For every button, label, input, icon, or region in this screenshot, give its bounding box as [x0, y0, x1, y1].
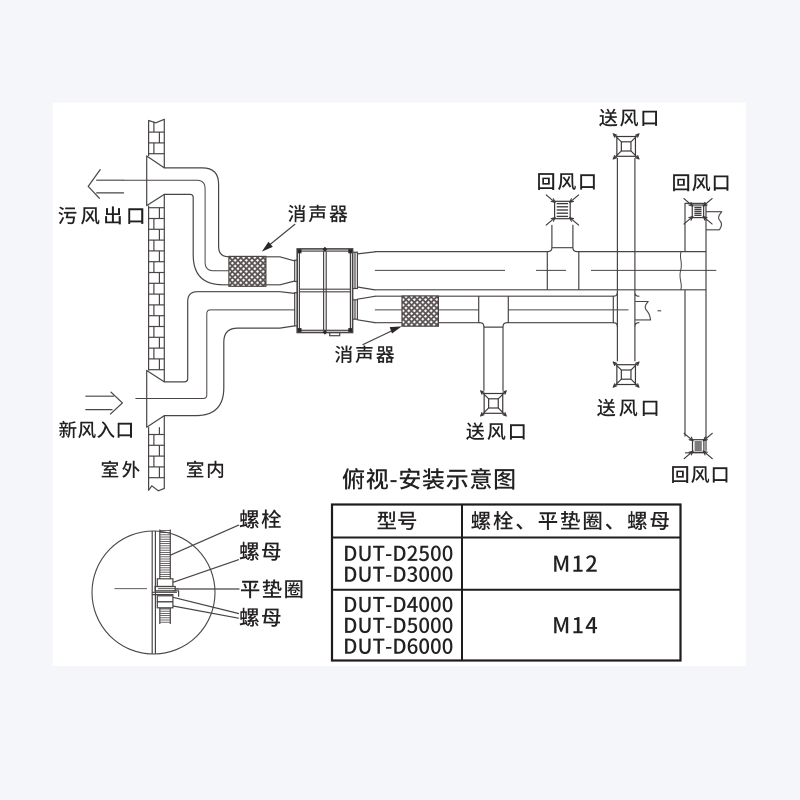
return grille R1: [546, 195, 578, 225]
label 室内: [187, 461, 223, 479]
label 消声器 M2 with leader: [335, 326, 402, 363]
fresh air flow arrow: [86, 392, 123, 414]
title 俯视-安装示意图: [343, 468, 515, 490]
label 新风入口: [59, 421, 132, 438]
label 室外: [102, 461, 140, 479]
label 污风出口: [58, 206, 143, 224]
return grille R2 (top right): [684, 199, 712, 224]
muffler M2: [402, 296, 438, 326]
fresh air duct: [136, 292, 298, 416]
supply grille S3 (left): [481, 391, 507, 416]
label 送风口 top: [599, 109, 657, 127]
exhaust duct: [124, 168, 298, 285]
table cell DUT-D2500 DUT-D3000: [345, 546, 452, 583]
return air main duct: [375, 248, 716, 290]
label 平垫圈 with leader: [175, 580, 302, 599]
label 回风口 R2: [673, 174, 728, 191]
table cell DUT-D4000 DUT-D5000 DUT-D6000: [345, 597, 452, 654]
muffler M1: [229, 256, 266, 286]
break flag symbol: [706, 212, 722, 230]
drawing area: [53, 103, 747, 667]
label 消声器 M1 with leader: [262, 205, 348, 252]
return branch duct: [552, 225, 573, 247]
supply air main duct: [375, 292, 661, 327]
wall with brick hatching: [147, 119, 165, 491]
heat recovery ventilator unit: [297, 247, 375, 336]
supply grille S1 (top): [613, 134, 639, 159]
bolt assembly: [115, 530, 180, 654]
label 回风口 R1: [538, 173, 595, 190]
spec table grid: [332, 505, 681, 661]
table cell M12: [554, 555, 597, 572]
supply riser duct: [617, 159, 635, 361]
table header 螺栓、平垫圈、螺母: [471, 511, 669, 530]
label 送风口 left: [466, 422, 524, 440]
label 螺母 lower with leader: [173, 597, 280, 626]
table cell M14: [554, 617, 597, 633]
supply grille S2 (mid): [613, 362, 639, 387]
detail circle: [92, 531, 215, 654]
return riser duct: [685, 203, 706, 452]
label 回风口 R3: [672, 466, 727, 483]
table header 型号: [378, 511, 417, 530]
return grille R3 (bottom right): [684, 433, 712, 458]
supply branch drop: [484, 327, 503, 391]
label 送风口 mid: [597, 399, 657, 417]
exhaust flow arrow: [88, 170, 123, 199]
label 螺栓 with leader: [170, 510, 281, 556]
label 螺母 upper with leader: [173, 542, 280, 583]
